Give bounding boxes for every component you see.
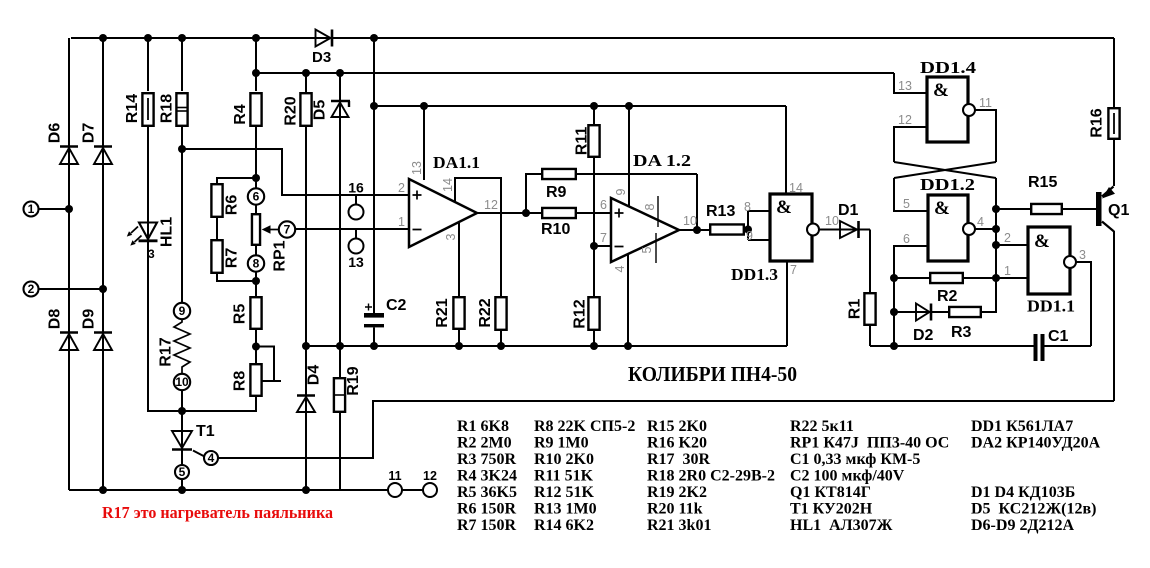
capacitor C1 (1034, 334, 1038, 361)
junction at 148,38 (144, 34, 152, 42)
junction at 894,346 (890, 342, 898, 350)
svg-text:R9: R9 (546, 184, 567, 201)
junction at 594,106 (590, 102, 598, 110)
resistor R19 (334, 378, 345, 412)
wire DD1.4 pin12 (894, 127, 927, 162)
svg-text:8: 8 (253, 257, 260, 271)
svg-text:D7: D7 (81, 123, 98, 144)
output bubble DD1.4 (963, 104, 975, 116)
node 4 (204, 451, 218, 465)
svg-text:3: 3 (1079, 248, 1086, 262)
wire Q1 emitter (1113, 107, 1115, 186)
diode D6 (60, 145, 78, 148)
wire DD1.1 pin2 lead (996, 244, 1028, 246)
node 10 (174, 374, 190, 390)
wire D2 left lead (894, 311, 948, 313)
node 8 (248, 255, 264, 271)
node 5 (175, 465, 189, 479)
junction at 103,289 (99, 285, 107, 293)
output bubble DD1.1 (1064, 256, 1076, 268)
junction at 501,346 (497, 342, 505, 350)
svg-text:12: 12 (898, 113, 912, 127)
wire RP1 wiper to DA1.1 -in (295, 228, 409, 230)
wire R9 right to feedback node (577, 173, 697, 175)
gate DD1.3 (770, 194, 812, 261)
svg-text:1: 1 (398, 215, 405, 229)
resistor R1 (864, 293, 875, 325)
output bubble DD1.2 (963, 223, 975, 235)
wire D4 branch (305, 346, 307, 490)
wire R15 left lead (996, 208, 1030, 210)
junction at 424,106 (420, 102, 428, 110)
svg-text:6: 6 (253, 190, 260, 204)
svg-text:13: 13 (348, 254, 364, 270)
svg-text:12: 12 (484, 198, 498, 212)
wire R11 top lead (593, 106, 595, 124)
junction at 374,38 (370, 34, 378, 42)
svg-text:6: 6 (903, 232, 910, 246)
wire Q1 collector (1102, 222, 1114, 232)
svg-text:HL1 АЛ307Ж: HL1 АЛ307Ж (790, 517, 893, 534)
svg-text:R2 2M0: R2 2M0 (457, 435, 512, 452)
junction at 256,178 (252, 174, 260, 182)
wire terminal13 stub (355, 229, 357, 239)
svg-text:R19 2K2: R19 2K2 (647, 484, 707, 501)
terminal 1 (24, 202, 39, 217)
wire R12 bottom lead (593, 331, 595, 346)
resistor R16 (1108, 108, 1119, 139)
svg-text:C1: C1 (1048, 328, 1069, 345)
wire node6 leads (255, 178, 257, 213)
wire DD1.3 pin14 drop (785, 106, 787, 194)
svg-text:D5 КС212Ж(12в): D5 КС212Ж(12в) (971, 501, 1096, 518)
svg-text:R20 11k: R20 11k (647, 501, 703, 518)
svg-text:DD1.4: DD1.4 (920, 58, 977, 77)
output bubble DD1.3 (807, 224, 819, 236)
wire R1 bottom lead (869, 326, 871, 346)
resistor R21 (453, 297, 464, 329)
svg-text:R21 3k01: R21 3k01 (647, 517, 711, 534)
junction at 182,38 (178, 34, 186, 42)
terminal 2 (24, 282, 39, 297)
wire R2 left lead (894, 277, 929, 279)
junction at 103,490 (99, 486, 107, 494)
svg-text:R18 2R0 C2-29B-2: R18 2R0 C2-29B-2 (647, 468, 775, 485)
wire terminal11-12 link (402, 489, 423, 491)
wire DA1.2 pin9 drop (628, 106, 630, 206)
wire DD1.4 pin11 (974, 110, 996, 162)
gate DD1.2 (928, 195, 968, 261)
wire bottom rail (69, 489, 388, 491)
svg-text:Q1: Q1 (1108, 202, 1129, 219)
wire output up branch to R9 (526, 174, 541, 213)
wire D5-R19 vertical (339, 73, 341, 377)
node 9 (174, 303, 190, 319)
op-amp DA1.1 (409, 179, 477, 247)
svg-text:R22 5к11: R22 5к11 (790, 418, 854, 435)
wire top rail (71, 37, 1114, 39)
svg-text:5: 5 (640, 246, 654, 253)
LED HL1 (139, 223, 157, 240)
svg-text:2: 2 (398, 181, 405, 195)
svg-text:R5: R5 (232, 304, 249, 325)
wire DD1.2 pin6 (894, 246, 928, 346)
terminal 16 circle (349, 205, 364, 220)
pin 8 stub DA1.2 (657, 196, 659, 227)
svg-text:2: 2 (1004, 231, 1011, 245)
svg-text:DD1.1: DD1.1 (1027, 297, 1075, 316)
junction at 69,209 (65, 205, 73, 213)
wire DD1.1 pin3 drop (1076, 262, 1091, 346)
svg-text:11: 11 (388, 469, 401, 483)
op-amp DA1.2 (611, 198, 679, 262)
wire DA1.1 output (477, 212, 541, 214)
svg-text:Q1 КТ814Г: Q1 КТ814Г (790, 484, 871, 501)
svg-text:C2: C2 (386, 297, 407, 314)
wire C1 right line (1045, 345, 1092, 347)
svg-text:10: 10 (175, 375, 189, 389)
diode D4 (297, 394, 315, 397)
wire left vertical D6-D8 (68, 38, 70, 490)
svg-text:7: 7 (600, 231, 607, 245)
wire R22 bottom lead (500, 331, 502, 346)
potentiometer RP1 (252, 214, 260, 245)
gate DD1.1 (1028, 227, 1070, 294)
wire R8 tap bracket (256, 347, 274, 382)
resistor R7 (211, 240, 222, 273)
svg-text:R18: R18 (159, 94, 176, 123)
svg-text:R16: R16 (1089, 108, 1106, 137)
svg-text:R6 150R: R6 150R (457, 501, 517, 518)
junction at 306,346 (302, 342, 310, 350)
wire C2 vertical top (373, 38, 375, 313)
wire left vertical D7-D9 (102, 38, 104, 490)
svg-text:R17: R17 (158, 337, 175, 366)
svg-text:R16 K20: R16 K20 (647, 435, 707, 452)
svg-text:D2: D2 (913, 327, 934, 344)
wire rail2 drop to DD1.4 pin13 (894, 73, 927, 93)
svg-text:11: 11 (979, 96, 992, 110)
wire rail3 (374, 105, 786, 107)
wire node5 to bottom rail (181, 479, 183, 490)
svg-text:DD1.2: DD1.2 (920, 175, 975, 194)
wire C2 vertical bottom (373, 328, 375, 347)
wire R18 top lead (181, 38, 183, 91)
terminal 11 (388, 483, 402, 497)
junction at 340,346 (336, 342, 344, 350)
junction at 306,73 (302, 69, 310, 77)
svg-text:4: 4 (613, 265, 627, 272)
svg-text:12: 12 (423, 469, 437, 483)
svg-text:10: 10 (683, 214, 697, 228)
svg-text:R8: R8 (232, 371, 249, 392)
junction at 306,490 (302, 486, 310, 494)
svg-text:R10 2K0: R10 2K0 (534, 451, 594, 468)
resistor R11 (588, 125, 599, 157)
svg-text:R15 2K0: R15 2K0 (647, 418, 707, 435)
wire R19 bottom lead (339, 413, 341, 490)
svg-text:D6-D9 2Д212А: D6-D9 2Д212А (971, 517, 1074, 534)
svg-text:R8 22K СП5-2: R8 22K СП5-2 (534, 418, 635, 435)
wire DA1.2 output (679, 229, 709, 231)
svg-text:КОЛИБРИ ПН4-50: КОЛИБРИ ПН4-50 (628, 362, 797, 386)
svg-text:R7: R7 (224, 248, 241, 269)
diode D3 (316, 30, 331, 47)
diode D9 (94, 331, 112, 334)
svg-text:7: 7 (790, 263, 797, 277)
diode D8 (60, 331, 78, 334)
svg-text:DA1.1: DA1.1 (433, 153, 480, 172)
junction at 374,106 (370, 102, 378, 110)
resistor R10 (542, 208, 576, 218)
svg-text:4: 4 (977, 215, 984, 229)
junction at 182,411 (178, 407, 186, 415)
junction at 594,346 (590, 342, 598, 350)
wire DD1.1 pin1 lead (996, 277, 1028, 279)
wire R8 bottom lead (255, 397, 257, 412)
svg-text:16: 16 (348, 180, 364, 196)
junction at 256,281 (252, 277, 260, 285)
svg-text:DA2 КР140УД20А: DA2 КР140УД20А (971, 435, 1101, 452)
wire R14 to HL1 (147, 127, 149, 412)
svg-text:C2 100 мкф/40V: C2 100 мкф/40V (790, 468, 905, 485)
wire DD1.3 pin9 lead (748, 239, 770, 241)
junction at 748,229.5 (744, 226, 752, 234)
resistor R3 (949, 307, 981, 317)
gate DD1.4 (927, 77, 968, 142)
transistor Q1 (1096, 192, 1102, 226)
junction at 182,149 (178, 145, 186, 153)
wire R4 top lead (255, 38, 257, 91)
svg-text:9: 9 (746, 229, 753, 243)
svg-text:R17 это нагреватель паяльника: R17 это нагреватель паяльника (102, 503, 333, 522)
svg-text:2: 2 (28, 282, 35, 296)
junction at 103,38 (99, 34, 107, 42)
wire T1 gate (193, 451, 205, 457)
svg-text:R19: R19 (345, 366, 362, 395)
junction at 594,246 (590, 242, 598, 250)
resistor R9 (542, 169, 576, 179)
wire DD1.3 pin8 lead (748, 210, 770, 212)
resistor R6 (211, 184, 222, 217)
wire C1 left line (870, 345, 1034, 347)
wire DD1.3 out to D1 (818, 229, 870, 231)
wire R8 tap tick (262, 380, 281, 382)
svg-text:R14: R14 (124, 94, 141, 123)
wire R2 right lead (964, 277, 996, 279)
svg-text:6: 6 (600, 198, 607, 212)
wire R11 bottom to R12 (593, 158, 595, 296)
wire cross coupling B (894, 162, 996, 178)
wire R6-R7 lead (216, 218, 218, 239)
diode D2 (916, 304, 930, 321)
wire DA1.2 pin4 drop (627, 254, 629, 346)
wire DD1.3 pin7 drop (786, 261, 788, 346)
svg-text:3: 3 (444, 233, 458, 240)
svg-text:R13 1M0: R13 1M0 (534, 501, 597, 518)
wire rail346 (306, 345, 787, 347)
svg-text:D1: D1 (838, 202, 859, 219)
junction at 894,278 (890, 274, 898, 282)
junction at 996,278 (992, 274, 1000, 282)
svg-text:R7 150R: R7 150R (457, 517, 517, 534)
junction at 182,490 (178, 486, 186, 494)
wire R5 to R8 (255, 330, 257, 363)
terminal 13 circle (349, 239, 364, 254)
wire R3 right jog (982, 278, 996, 312)
svg-text:R3 750R: R3 750R (457, 451, 517, 468)
svg-text:7: 7 (284, 223, 291, 237)
svg-text:1: 1 (28, 202, 35, 216)
junction at 894,312 (890, 308, 898, 316)
svg-text:5: 5 (903, 197, 910, 211)
junction at 628,346 (624, 342, 632, 350)
svg-text:1: 1 (1004, 264, 1011, 278)
wire cross coupling A (894, 162, 996, 178)
svg-text:9: 9 (179, 304, 186, 318)
svg-text:&: & (776, 197, 792, 218)
junction at 996,209 (992, 205, 1000, 213)
svg-text:D6: D6 (47, 123, 64, 144)
diode D1 (840, 221, 857, 238)
junction at 629,106 (625, 102, 633, 110)
svg-text:R9 1M0: R9 1M0 (534, 435, 589, 452)
junction at 697,230 (693, 226, 701, 234)
resistor R12 (588, 297, 599, 330)
svg-text:DA 1.2: DA 1.2 (633, 151, 691, 170)
terminal 12 (423, 483, 437, 497)
wire D1 to R1 (869, 230, 871, 293)
junction at 256,346.5 (252, 343, 260, 351)
wire R7 bottom bracket (217, 274, 256, 281)
svg-text:R12 51K: R12 51K (534, 484, 595, 501)
wire R10 right lead (577, 212, 611, 214)
wire terminal1 to D6 line (39, 208, 70, 210)
wire R20 top lead (305, 73, 307, 93)
svg-text:13: 13 (410, 161, 424, 175)
junction at 996,245 (992, 241, 1000, 249)
svg-text:R13: R13 (706, 203, 735, 220)
svg-text:D9: D9 (81, 309, 98, 330)
svg-text:R2: R2 (937, 288, 958, 305)
svg-text:DD1.3: DD1.3 (731, 265, 778, 284)
svg-text:R3: R3 (951, 324, 972, 341)
svg-text:D4: D4 (306, 365, 323, 386)
svg-text:8: 8 (643, 203, 657, 210)
wire R21 bottom lead (458, 330, 460, 346)
wire node10 to T1 (181, 390, 183, 449)
svg-text:R1: R1 (847, 299, 864, 320)
pin 5 stub DA1.2 (655, 233, 657, 263)
svg-text:14: 14 (789, 181, 803, 195)
resistor R13 (710, 224, 744, 234)
svg-text:D3: D3 (312, 49, 331, 66)
svg-text:R11 51K: R11 51K (534, 468, 594, 485)
svg-text:C1 0,33 мкф КМ-5: C1 0,33 мкф КМ-5 (790, 451, 920, 468)
resistor R22 (495, 297, 506, 330)
svg-text:D5: D5 (312, 100, 329, 121)
svg-text:R21: R21 (434, 298, 451, 327)
svg-text:R17 30R: R17 30R (647, 451, 711, 468)
svg-text:13: 13 (898, 79, 912, 93)
junction at 459,346 (455, 342, 463, 350)
wire R13 right lead (745, 229, 748, 231)
svg-text:D1 D4 КД103Б: D1 D4 КД103Б (971, 484, 1075, 501)
svg-text:10: 10 (825, 214, 839, 228)
svg-text:R10: R10 (541, 221, 570, 238)
wire DA1.1 pin13 drop (423, 106, 425, 180)
svg-text:R11: R11 (574, 127, 591, 156)
svg-text:R22: R22 (477, 298, 494, 327)
resistor R20 (300, 93, 311, 126)
wire branch R18 to DA1.1 +in (182, 149, 409, 195)
svg-text:3: 3 (148, 247, 155, 261)
svg-text:14: 14 (441, 178, 455, 192)
svg-text:R20: R20 (283, 96, 300, 125)
wire R18 to node9 (181, 127, 183, 303)
wire feedback drop to DA1.2 out (696, 174, 698, 230)
resistor R5 (250, 297, 261, 329)
svg-text:R12: R12 (572, 299, 589, 328)
junction at 374,346 (370, 342, 378, 350)
svg-text:8: 8 (744, 200, 751, 214)
svg-text:&: & (1034, 231, 1050, 252)
wire gate return step (218, 401, 1114, 458)
wire R6 top bracket (217, 178, 256, 183)
junction at 256,73 (252, 69, 260, 77)
wire R4 to RP1 top node (255, 126, 257, 178)
svg-text:R5 36K5: R5 36K5 (457, 484, 517, 501)
wire right drop to R16 (1113, 38, 1115, 107)
wire terminal2 to D7 line (39, 288, 104, 290)
wire to DD1.2 pin5 (894, 178, 928, 211)
svg-text:&: & (933, 80, 949, 101)
resistor R15 (1031, 204, 1062, 214)
heater resistor R17 zigzag (174, 319, 190, 374)
svg-text:HL1: HL1 (159, 217, 176, 247)
wire R20 to rail346 (305, 127, 307, 346)
svg-text:T1: T1 (196, 423, 215, 440)
svg-text:R6: R6 (224, 195, 241, 216)
capacitor C2 (364, 313, 384, 318)
wire terminal16 stub (355, 195, 357, 205)
svg-text:4: 4 (208, 451, 215, 465)
node 6 (248, 188, 264, 204)
svg-text:T1 КУ202Н: T1 КУ202Н (790, 501, 873, 518)
svg-text:RP1: RP1 (272, 240, 289, 271)
wire RP1 to node8 to R5 (255, 246, 257, 296)
diode D7 (94, 145, 112, 148)
wire DA1.2 pin7 lead (594, 245, 611, 247)
svg-text:R15: R15 (1028, 174, 1057, 191)
wire T1 cathode to node5 (181, 450, 183, 465)
svg-text:DD1 К561ЛА7: DD1 К561ЛА7 (971, 418, 1073, 435)
wire DD1.2 out net vertical (995, 178, 997, 312)
wire HL1 bottom to T1 node (148, 410, 256, 412)
resistor R2 (930, 273, 963, 283)
wire DA1.1 pin14 bracket (455, 178, 501, 296)
svg-text:D8: D8 (47, 309, 64, 330)
wire DD1.2 pin4 lead (974, 228, 996, 230)
svg-text:&: & (934, 198, 950, 219)
wire DD1.3 input tie (747, 211, 749, 240)
junction at 256,38 (252, 34, 260, 42)
resistor R4 (250, 93, 261, 126)
zener D5 (331, 100, 350, 102)
svg-text:R4: R4 (232, 104, 249, 125)
svg-text:R4 3K24: R4 3K24 (457, 468, 517, 485)
trimmer R8 (250, 364, 261, 396)
